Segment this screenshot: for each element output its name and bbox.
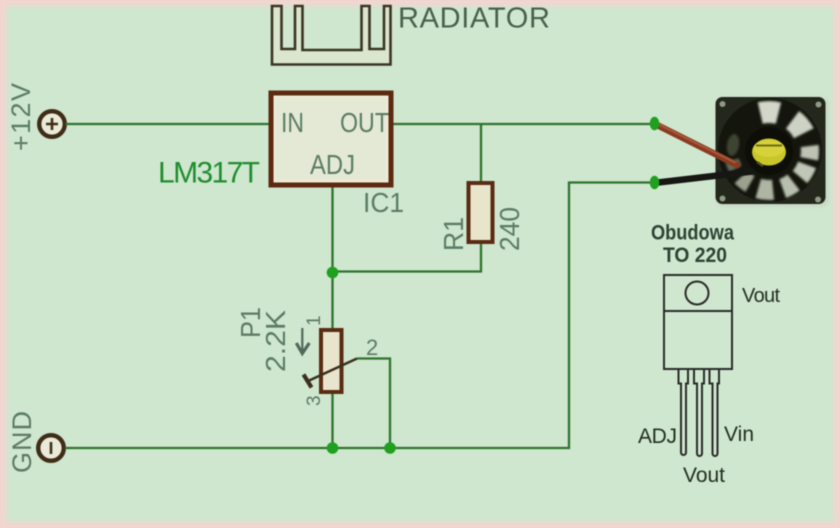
wire pot pin3 down: [331, 392, 333, 448]
wire wiper pin2: [357, 359, 390, 449]
node pot pin3 on rail: [327, 442, 339, 454]
potentiometer P1 body: [321, 330, 342, 392]
svg-text:Vout: Vout: [742, 285, 780, 307]
wire R1 bottom to ADJ node: [333, 242, 481, 272]
wire ADJ down to pot: [331, 185, 333, 330]
svg-text:Vin: Vin: [724, 423, 754, 446]
leg 2: [694, 369, 704, 456]
svg-text:IC1: IC1: [363, 187, 404, 218]
svg-text:ADJ: ADJ: [638, 425, 677, 448]
svg-text:IN: IN: [281, 107, 304, 138]
svg-text:1: 1: [304, 315, 325, 326]
wire +12V to IN: [66, 123, 272, 125]
fan photo: [716, 97, 829, 206]
wire OUT to fan: [391, 123, 651, 125]
svg-text:2: 2: [366, 335, 378, 360]
svg-text:LM317T: LM317T: [158, 157, 260, 190]
wiper end bar: [304, 375, 312, 388]
wire GND rail: [65, 183, 651, 449]
wire fan red: [657, 125, 737, 165]
resistor R1: [469, 183, 493, 242]
svg-text:ADJ: ADJ: [310, 149, 355, 180]
svg-text:Obudowa: Obudowa: [651, 222, 734, 245]
TO-220 package drawing: [664, 275, 732, 456]
heatsink RADIATOR symbol: [272, 6, 391, 65]
svg-text:TO 220: TO 220: [663, 244, 727, 267]
tab: [664, 275, 732, 311]
node pin2 on rail: [384, 442, 396, 454]
svg-text:+12V: +12V: [6, 83, 36, 151]
svg-text:RADIATOR: RADIATOR: [398, 3, 550, 35]
svg-text:2.2K: 2.2K: [260, 310, 291, 372]
svg-text:3: 3: [304, 395, 325, 406]
svg-text:GND: GND: [7, 411, 37, 473]
body: [664, 311, 732, 369]
node fan plus: [650, 117, 660, 131]
terminal +12V: [39, 111, 65, 137]
wiper arm: [307, 359, 357, 382]
svg-text:240: 240: [494, 207, 525, 251]
svg-text:OUT: OUT: [340, 107, 389, 138]
wire fan black: [658, 172, 752, 183]
node fan minus: [650, 176, 660, 190]
svg-text:R1: R1: [438, 217, 469, 251]
adjustment arrow: [301, 328, 303, 351]
node ADJ junction: [327, 267, 339, 279]
leg 1: [679, 369, 689, 455]
op IC1 LM317T regulator box: [271, 93, 391, 185]
terminal GND: [38, 435, 64, 461]
wire R1 top: [480, 124, 482, 183]
mounting hole: [686, 282, 709, 305]
leg 3: [710, 369, 720, 456]
svg-text:Vout: Vout: [683, 464, 725, 487]
